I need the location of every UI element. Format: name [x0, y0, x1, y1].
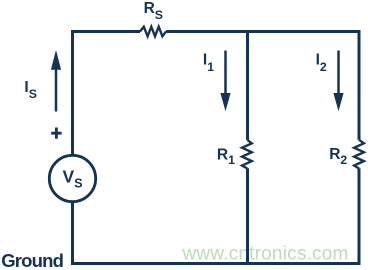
label RS: [144, 0, 163, 22]
label I2: [316, 52, 327, 74]
svg-text:IS: IS: [24, 79, 37, 101]
svg-text:R2: R2: [329, 146, 347, 167]
watermark www.cntronics.com: [182, 243, 349, 264]
svg-text:RS: RS: [144, 0, 163, 22]
current arrow IS (pointing up): [51, 50, 61, 112]
wire bottom ground rail: [71, 262, 361, 265]
resistor R2 (zigzag): [354, 140, 364, 169]
svg-text:Ground: Ground: [1, 250, 63, 270]
wire left-upper: Vs + terminal up to top-left corner and across to Rs: [73, 32, 141, 156]
svg-text:I1: I1: [203, 52, 214, 74]
wire middle-lower: R1 down to ground rail: [246, 168, 249, 263]
label I1: [203, 52, 214, 74]
current arrow I1 (pointing down): [220, 51, 230, 112]
label IS: [24, 79, 37, 101]
resistor R1 (zigzag): [242, 140, 252, 169]
voltage source VS (circle): [49, 155, 95, 201]
plus sign (Vs polarity): [51, 128, 61, 139]
svg-text:www.cntronics.com: www.cntronics.com: [182, 243, 349, 264]
svg-text:R1: R1: [217, 146, 235, 167]
wire right-lower: R2 down to ground rail: [358, 168, 361, 263]
label R1: [217, 146, 235, 167]
wire middle-upper: top node down to R1: [246, 30, 249, 140]
svg-text:I2: I2: [316, 52, 327, 74]
label R2: [329, 146, 347, 167]
resistor RS (zigzag): [140, 27, 166, 37]
label Ground: [1, 250, 63, 270]
wire top-right: Rs to top-right corner: [166, 30, 361, 33]
current arrow I2 (pointing down): [333, 51, 343, 112]
label VS: [63, 167, 83, 191]
wire right-upper: top-right corner down to R2: [358, 30, 361, 140]
wire left-lower: Vs - terminal down to ground rail: [71, 202, 74, 264]
